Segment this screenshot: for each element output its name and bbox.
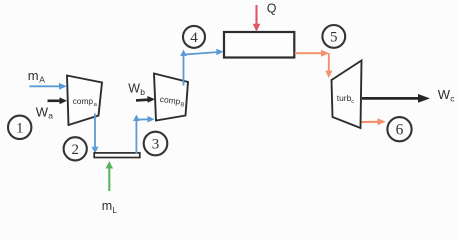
svg-text:turb: turb [337, 93, 352, 103]
label m_A [28, 68, 46, 85]
label Q [267, 1, 277, 15]
wire W_b work input arrow (black) into comp_b [136, 96, 155, 103]
wire comp_b outlet elbow (blue) up past node 4 into combustor [180, 49, 223, 86]
wire comp_a outlet arrow (blue) down to node 2 [92, 114, 99, 154]
svg-text:5: 5 [330, 29, 338, 45]
svg-text:W: W [128, 82, 140, 96]
wire heat exchanger outlet elbow (blue) up to node 3 into comp_b [133, 115, 155, 154]
node 1 [8, 116, 31, 139]
label W_a [36, 105, 54, 121]
wire Q heat input arrow (red) down into combustor [253, 5, 261, 32]
svg-text:Q: Q [267, 1, 277, 15]
wire combustor outlet elbow (orange) right past node 5 down to turbine [295, 50, 333, 78]
compressor comp_b [154, 74, 188, 121]
svg-text:3: 3 [152, 137, 160, 153]
svg-text:b: b [140, 87, 145, 97]
node 6 [387, 117, 411, 141]
node 4 [183, 26, 205, 48]
svg-text:1: 1 [16, 120, 24, 136]
wire W_a work input arrow (black) into comp_a [48, 97, 68, 104]
svg-text:m: m [28, 68, 39, 83]
svg-text:4: 4 [190, 30, 198, 46]
label W_c [438, 87, 456, 104]
svg-text:comp: comp [73, 96, 94, 106]
wire W_c work output arrow (black) from turbine [362, 94, 430, 103]
label m_L [102, 199, 118, 215]
svg-text:6: 6 [396, 122, 404, 139]
wire m_A inlet arrow (blue) into comp_a [30, 83, 67, 90]
wire m_L coolant arrow (green) up into heat exchanger [106, 161, 114, 191]
svg-text:c: c [450, 93, 455, 103]
node 2 [64, 137, 87, 160]
svg-text:L: L [112, 206, 117, 215]
turbine turb_c [332, 61, 362, 129]
svg-text:W: W [438, 87, 451, 102]
svg-text:a: a [48, 111, 53, 121]
svg-text:m: m [102, 199, 112, 213]
node 3 [144, 132, 168, 156]
combustor (heat addition rectangle) [224, 32, 294, 58]
heat exchanger (intercooler plate) [94, 153, 140, 158]
svg-text:W: W [36, 105, 49, 120]
compressor comp_a [67, 76, 102, 126]
svg-text:c: c [351, 99, 354, 105]
svg-text:2: 2 [71, 142, 79, 158]
wire turbine exhaust arrow (orange) to node 6 [362, 118, 386, 125]
svg-text:A: A [39, 75, 45, 85]
label W_b [128, 82, 145, 97]
node 5 [322, 25, 345, 48]
